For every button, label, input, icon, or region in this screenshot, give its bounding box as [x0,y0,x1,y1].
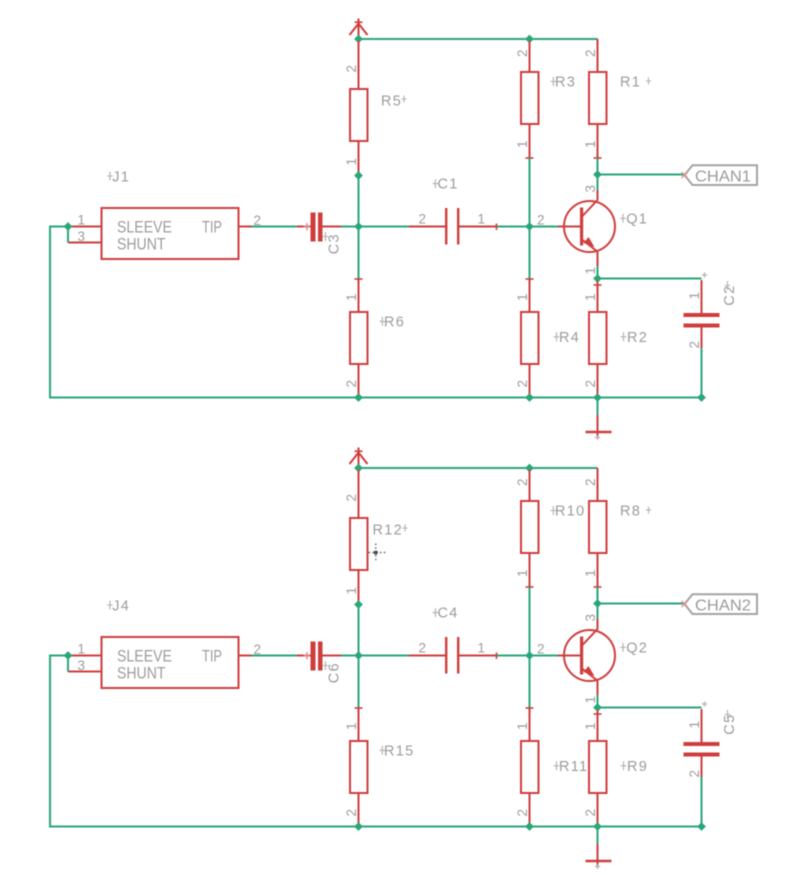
wire jack sleeve to ground rail [50,656,702,827]
label Q2 [620,641,648,657]
svg-text:TIP: TIP [202,219,222,237]
wire jack tip to input cap [252,226,298,228]
svg-text:2: 2 [583,380,598,388]
label C2 [722,281,738,306]
wire R1 to output node [597,158,599,175]
junction bypass cap at rail [697,822,706,831]
svg-text:C3: C3 [327,233,343,254]
capacitor C1 [409,208,497,245]
svg-text:R4: R4 [559,330,580,346]
svg-text:1: 1 [515,293,530,301]
wire bypass cap to rail [701,348,703,398]
junction below R12 [354,600,363,609]
svg-text:2: 2 [515,49,530,57]
junction VCC rail left [354,464,363,473]
svg-text:2: 2 [583,478,598,486]
label R8 [620,504,651,520]
svg-text:1: 1 [583,140,598,148]
svg-text:TIP: TIP [202,648,222,666]
wire R5 to divider node [358,173,360,279]
svg-text:SLEEVE: SLEEVE [117,219,172,237]
label R9 [621,759,648,775]
svg-text:1: 1 [344,293,359,301]
wire jack sleeve to ground rail [50,227,702,398]
label C1 [433,177,459,193]
resistor R6 [344,279,368,398]
supply VCC symbol [350,19,368,40]
wire R3 to base node [529,158,531,279]
label J4 [107,599,130,615]
junction R4 at rail [525,393,534,402]
svg-text:2: 2 [419,641,427,656]
junction base node [525,222,534,231]
resistor R3 [515,41,539,158]
resistor R1 [583,39,607,158]
resistor R12 [344,470,368,602]
cursor crosshair marker [369,544,386,562]
svg-text:1: 1 [583,696,598,704]
label R10 [551,504,586,520]
wire collector to output node [597,604,599,620]
label R5 [381,93,407,109]
wire emitter to emitter node [597,266,599,279]
wire R8 to output node [597,587,599,604]
wire output node to CHAN2 flag [598,603,685,605]
resistor R15 [344,708,368,827]
label R12 [373,522,408,538]
junction output node [593,170,602,179]
svg-text:R6: R6 [384,314,405,330]
capacitor C4 [409,637,497,674]
svg-text:R10: R10 [555,504,586,520]
svg-text:1: 1 [515,140,530,148]
junction divider node [354,222,363,231]
svg-text:1: 1 [344,722,359,730]
svg-text:R9: R9 [627,759,648,775]
label C4 [433,606,459,622]
svg-text:3: 3 [78,229,86,244]
svg-text:R11: R11 [559,759,588,775]
junction emitter node [593,703,602,712]
label J1 [107,170,130,186]
junction top of R10 [525,464,534,473]
svg-text:2: 2 [344,380,359,388]
resistor R10 [515,470,539,587]
svg-text:2: 2 [515,809,530,817]
wire bypass cap to rail [701,777,703,827]
label C3 [323,232,343,254]
junction bypass cap at rail [697,393,706,402]
label C5 [722,710,738,735]
svg-text:SLEEVE: SLEEVE [117,648,172,666]
svg-text:1: 1 [344,158,359,166]
svg-text:2: 2 [515,478,530,486]
wire emitter node to bypass cap [598,278,702,280]
label R1 [620,75,651,91]
label R6 [380,314,406,330]
svg-text:1: 1 [78,642,86,657]
svg-text:2: 2 [583,809,598,817]
svg-text:1: 1 [583,722,598,730]
junction R9 at rail [593,822,602,831]
svg-text:R8: R8 [620,504,641,520]
svg-text:2: 2 [344,809,359,817]
svg-text:CHAN2: CHAN2 [695,598,751,615]
svg-text:3: 3 [583,614,598,622]
label Q1 [620,212,648,228]
jack connector J4 [68,637,261,688]
svg-text:1: 1 [583,267,598,275]
resistor R11 [515,708,539,827]
ground symbol [586,398,612,441]
junction VCC rail left [354,35,363,44]
wire VCC top rail [359,38,598,40]
svg-text:3: 3 [78,658,86,673]
polarized capacitor C3 [297,213,341,242]
junction R11 at rail [525,822,534,831]
label C6 [323,661,343,683]
wire output node to CHAN1 flag [598,174,685,176]
polarized capacitor C2 [684,272,720,348]
transistor Q1 [537,185,615,275]
svg-text:1: 1 [344,587,359,595]
svg-text:1: 1 [478,212,486,227]
svg-text:2: 2 [344,494,359,502]
svg-text:1: 1 [583,293,598,301]
svg-text:R3: R3 [555,75,576,91]
svg-text:C4: C4 [438,606,459,622]
wire input cap to divider node [341,226,409,228]
svg-text:J1: J1 [112,170,130,186]
junction base node [525,651,534,660]
polarized capacitor C6 [297,642,341,671]
svg-text:R2: R2 [627,330,648,346]
svg-text:R1: R1 [620,75,641,91]
wire emitter to emitter node [597,695,599,708]
junction top of R3 [525,35,534,44]
svg-text:SHUNT: SHUNT [117,665,166,683]
label R3 [551,75,577,91]
svg-text:R5: R5 [381,93,402,109]
wire emitter node to bypass cap [598,707,702,709]
svg-text:2: 2 [515,380,530,388]
svg-text:1: 1 [78,213,86,228]
svg-text:CHAN1: CHAN1 [695,169,751,186]
label R15 [380,743,415,759]
ground symbol [586,827,612,870]
resistor R4 [515,279,539,398]
svg-text:Q1: Q1 [626,212,648,228]
svg-text:2: 2 [687,341,702,349]
resistor R2 [583,281,607,398]
resistor R5 [344,41,368,173]
svg-text:1: 1 [687,292,702,300]
junction output node [593,599,602,608]
svg-text:C1: C1 [438,177,459,193]
junction R15 at rail [354,822,363,831]
wire jack tip to input cap [252,655,298,657]
svg-text:2: 2 [583,49,598,57]
junction R6 at rail [354,393,363,402]
svg-text:J4: J4 [112,599,130,615]
wire R10 to base node [529,587,531,708]
wire R12 to divider node [358,602,360,708]
junction jack pin 1 [64,222,73,231]
resistor R8 [583,468,607,587]
svg-text:C6: C6 [327,662,343,683]
svg-text:2: 2 [687,770,702,778]
svg-text:1: 1 [515,569,530,577]
junction below R5 [354,171,363,180]
svg-text:R12: R12 [373,522,404,538]
label R11 [554,759,589,775]
svg-text:R15: R15 [384,743,415,759]
wire input cap to divider node [341,655,409,657]
svg-text:1: 1 [478,641,486,656]
transistor Q2 [537,614,615,704]
resistor R9 [583,710,607,827]
svg-text:SHUNT: SHUNT [117,236,166,254]
svg-text:2: 2 [344,65,359,73]
wire coupling cap to base node [497,655,558,657]
svg-text:2: 2 [537,642,545,657]
svg-text:3: 3 [583,185,598,193]
svg-text:2: 2 [537,213,545,228]
svg-text:1: 1 [687,721,702,729]
svg-text:2: 2 [419,212,427,227]
jack connector J1 [68,208,261,259]
polarized capacitor C5 [684,701,720,777]
junction emitter node [593,274,602,283]
junction jack pin 1 [64,651,73,660]
wire collector to output node [597,175,599,191]
junction R2 at rail [593,393,602,402]
junction divider node [354,651,363,660]
net flag CHAN2 [682,594,758,614]
svg-text:C5: C5 [722,714,738,735]
svg-text:Q2: Q2 [626,641,648,657]
svg-text:1: 1 [515,722,530,730]
label R2 [621,330,648,346]
label R4 [554,330,580,346]
svg-text:1: 1 [583,569,598,577]
supply VCC symbol [350,448,368,469]
wire VCC top rail [359,467,598,469]
svg-text:C2: C2 [722,285,738,306]
wire coupling cap to base node [497,226,558,228]
net flag CHAN1 [682,165,758,185]
